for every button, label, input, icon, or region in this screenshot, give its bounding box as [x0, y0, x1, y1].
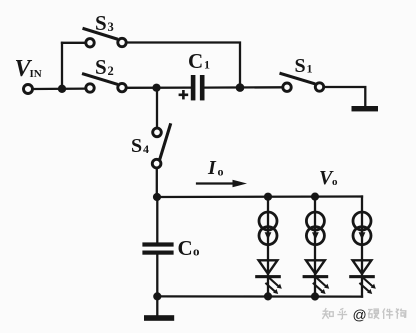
svg-text:4: 4	[143, 142, 149, 156]
current source D1a	[259, 212, 277, 230]
wire C1 to S1	[205, 86, 283, 89]
wire branch2	[314, 197, 316, 297]
svg-text:S: S	[95, 55, 107, 79]
wire S1 to ground	[324, 87, 365, 107]
svg-text:o: o	[332, 176, 338, 188]
LED D1	[259, 260, 278, 274]
LED branch 2	[303, 193, 330, 301]
LED D3	[353, 260, 372, 274]
svg-text:3: 3	[108, 20, 114, 34]
wire node B to S4	[156, 88, 158, 128]
Io arrow	[197, 180, 247, 187]
node H junction (branch2 top)	[311, 193, 319, 201]
wire S3 to C1 top corner	[127, 43, 240, 89]
wire branch1	[267, 197, 269, 297]
watermark 知乎 @硬件狗 (vector glyphs)	[322, 308, 406, 319]
wire to S3	[62, 42, 85, 44]
ground (bottom)	[144, 315, 174, 321]
node G junction (branch1 bottom)	[264, 292, 272, 300]
svg-text:C: C	[178, 236, 193, 260]
svg-text:2: 2	[108, 64, 114, 78]
label + (C1 polarity)	[179, 90, 189, 99]
svg-text:S: S	[95, 11, 107, 35]
wire Co to node E	[156, 255, 158, 297]
node F junction (branch1 top)	[264, 193, 272, 201]
svg-text:C: C	[188, 49, 203, 73]
wire top rail Vo	[157, 195, 362, 198]
wire S4 to node D	[156, 169, 158, 197]
svg-text:@: @	[353, 306, 367, 322]
switch S1	[281, 74, 324, 92]
node D junction (top rail left)	[153, 193, 161, 201]
switch S2	[84, 74, 127, 92]
LED branch 3	[349, 197, 376, 297]
wire bottom rail	[157, 295, 362, 298]
node I junction (branch2 bottom)	[311, 292, 319, 300]
wire VIN to node A	[33, 87, 85, 90]
wire node A up to S3 rail	[61, 43, 63, 89]
switch S4	[152, 125, 170, 168]
LED D2	[306, 260, 325, 274]
svg-text:IN: IN	[30, 68, 42, 80]
svg-text:o: o	[193, 243, 200, 258]
current source D3a	[353, 212, 371, 230]
wire S2 to C1	[127, 86, 191, 89]
wire branch3	[361, 197, 363, 297]
current source D2a	[306, 212, 324, 230]
svg-text:S: S	[131, 135, 142, 157]
switch S3	[84, 29, 126, 47]
svg-text:I: I	[207, 157, 217, 179]
svg-text:1: 1	[204, 58, 210, 72]
svg-text:S: S	[295, 55, 306, 77]
capacitor C1	[191, 75, 205, 100]
ground (right)	[352, 106, 379, 111]
svg-text:1: 1	[307, 62, 313, 76]
svg-text:o: o	[218, 164, 224, 178]
node C junction (C1 right / S3 rail)	[236, 83, 245, 92]
wire node D down to Co	[156, 197, 158, 243]
node VIN terminal	[24, 85, 33, 94]
node A junction	[58, 85, 66, 93]
node B junction (S4 tap)	[152, 84, 160, 92]
node E junction (bottom rail left)	[153, 292, 161, 300]
wire node E to ground	[156, 296, 158, 315]
capacitor Co	[142, 242, 173, 254]
LED branch 1	[255, 193, 282, 301]
